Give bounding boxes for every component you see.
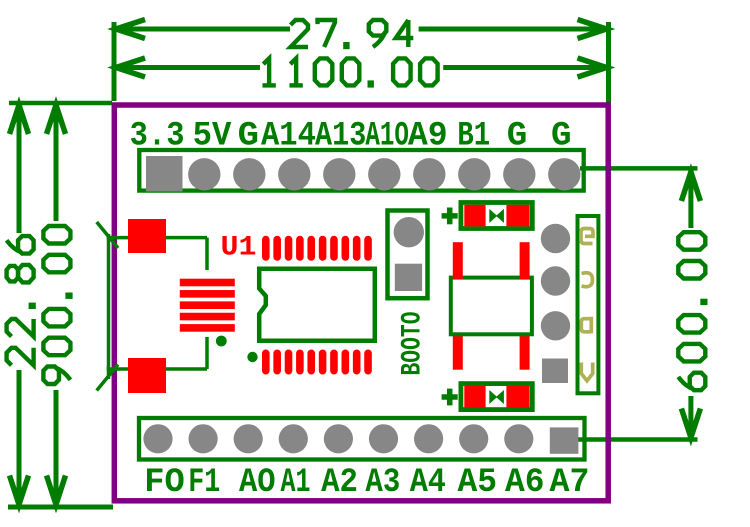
svg-text:A1O: A1O xyxy=(365,118,409,156)
svg-text:BOOTO: BOOTO xyxy=(398,312,429,376)
svg-text:A5: A5 xyxy=(458,464,498,502)
svg-text:A13: A13 xyxy=(315,118,366,156)
svg-text:A2: A2 xyxy=(321,464,358,502)
svg-text:F1: F1 xyxy=(188,464,220,502)
svg-text:A7: A7 xyxy=(550,464,590,502)
svg-text:A6: A6 xyxy=(505,464,545,502)
svg-text:B1: B1 xyxy=(457,118,490,156)
svg-text:3.3: 3.3 xyxy=(130,118,185,156)
svg-text:A3: A3 xyxy=(365,464,400,502)
svg-text:A4: A4 xyxy=(410,464,446,502)
svg-text:G: G xyxy=(238,118,259,156)
svg-text:G: G xyxy=(551,118,572,156)
svg-text:G: G xyxy=(507,118,528,156)
svg-text:A1: A1 xyxy=(281,464,311,502)
svg-text:U1: U1 xyxy=(221,232,257,263)
svg-text:AO: AO xyxy=(239,464,276,502)
svg-text:FO: FO xyxy=(144,464,185,502)
svg-text:5V: 5V xyxy=(193,118,232,156)
svg-text:A14: A14 xyxy=(261,118,316,156)
svg-text:A9: A9 xyxy=(408,118,448,156)
